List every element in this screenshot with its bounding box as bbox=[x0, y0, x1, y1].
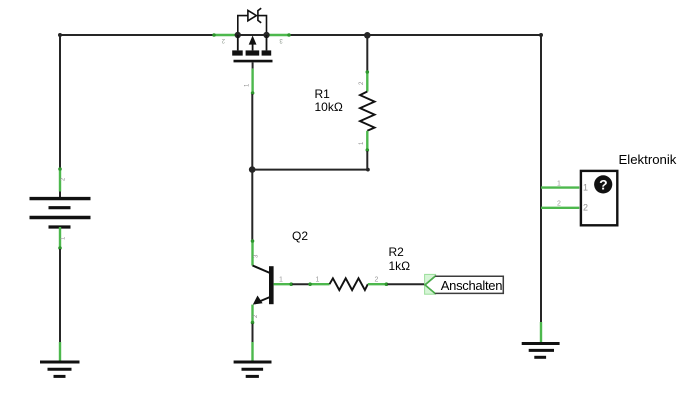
battery bbox=[30, 199, 91, 227]
transistor Q2 emitter lead (green) bbox=[251, 305, 255, 325]
wire: right rail down bbox=[540, 35, 542, 322]
bendpoint top-left corner bbox=[58, 33, 62, 37]
wire: R1 top from rail bbox=[366, 35, 368, 71]
svg-text:2: 2 bbox=[583, 203, 588, 213]
Elektronik part pin 2 lead (green) bbox=[541, 207, 579, 209]
wire: node A down to Q2 collector bbox=[251, 170, 253, 240]
wire: base to R2 bbox=[292, 283, 309, 285]
svg-text:1: 1 bbox=[557, 181, 561, 188]
left ground pin lead (green) bbox=[59, 342, 61, 361]
wire: top rail bbox=[60, 34, 541, 36]
svg-text:R2: R2 bbox=[389, 245, 405, 259]
svg-text:2: 2 bbox=[557, 201, 561, 208]
junction node: MOSFET left on top rail bbox=[235, 32, 241, 38]
svg-text:Q2: Q2 bbox=[292, 229, 308, 243]
svg-text:R1: R1 bbox=[315, 87, 331, 101]
resistor R2 pin 1 lead (green) bbox=[308, 282, 329, 286]
MOSFET Q1 body diode bbox=[238, 8, 267, 35]
MOSFET Q1 body bbox=[232, 35, 272, 61]
svg-text:1: 1 bbox=[316, 277, 320, 284]
bendpoint top-right corner bbox=[539, 33, 543, 37]
transistor Q2 bbox=[253, 266, 274, 305]
resistor R1 pin 1 lead (green) bbox=[366, 131, 370, 152]
center ground pin lead (green) bbox=[251, 342, 253, 361]
ground (center) bbox=[234, 362, 272, 376]
wire: gate vertical to node A bbox=[251, 94, 253, 170]
svg-text:?: ? bbox=[599, 177, 608, 193]
resistor R1 bbox=[360, 92, 375, 131]
MOSFET Q1 pin 2 lead (green, left) bbox=[212, 33, 235, 37]
net label "Anschalten" bbox=[425, 274, 504, 294]
svg-text:1kΩ: 1kΩ bbox=[389, 259, 411, 273]
resistor R2 pin 2 lead (green) bbox=[368, 282, 388, 286]
bendpoint at R1 bottom corner bbox=[366, 168, 370, 172]
Elektronik part pin 1 lead (green) bbox=[541, 186, 579, 188]
junction node: R1 top on rail bbox=[364, 32, 371, 39]
svg-text:2: 2 bbox=[375, 277, 379, 284]
svg-text:Elektronik: Elektronik bbox=[619, 152, 677, 167]
junction node: MOSFET right on top rail bbox=[263, 32, 269, 38]
wire: node A to R1 bottom bbox=[252, 169, 368, 171]
transistor Q2 collector lead (green) bbox=[251, 239, 255, 265]
wire: R1 bottom lead to corner bbox=[366, 151, 368, 170]
svg-text:1: 1 bbox=[279, 277, 283, 284]
MOSFET Q1 pin 3 lead (green, right) bbox=[268, 33, 291, 37]
battery pin 1 lead (green) bbox=[58, 227, 62, 250]
MOSFET Q1 gate pin lead (green) bbox=[251, 62, 255, 94]
resistor R2 value label bbox=[389, 245, 411, 273]
resistor R1 pin 2 lead (green) bbox=[366, 70, 370, 91]
transistor Q2 base lead (green) bbox=[274, 282, 293, 286]
svg-text:Anschalten: Anschalten bbox=[441, 278, 502, 293]
wire: emitter to center ground bbox=[252, 324, 254, 342]
resistor R2 bbox=[330, 278, 368, 290]
svg-text:10kΩ: 10kΩ bbox=[315, 100, 343, 114]
wire: left rail, top corner to battery bbox=[59, 35, 61, 168]
ground (left) bbox=[40, 362, 80, 376]
Elektronik part U1 bbox=[581, 171, 617, 225]
resistor R1 value label bbox=[315, 87, 343, 114]
svg-text:1: 1 bbox=[583, 183, 588, 193]
wire: battery to left ground bbox=[59, 249, 61, 342]
right ground pin lead (green) bbox=[540, 322, 542, 343]
junction node A (gate / R1 / collector) bbox=[249, 166, 256, 173]
battery pin 2 lead (green) bbox=[58, 167, 62, 197]
ground (right) bbox=[522, 344, 560, 358]
wire: R2 to net label bbox=[387, 283, 425, 285]
